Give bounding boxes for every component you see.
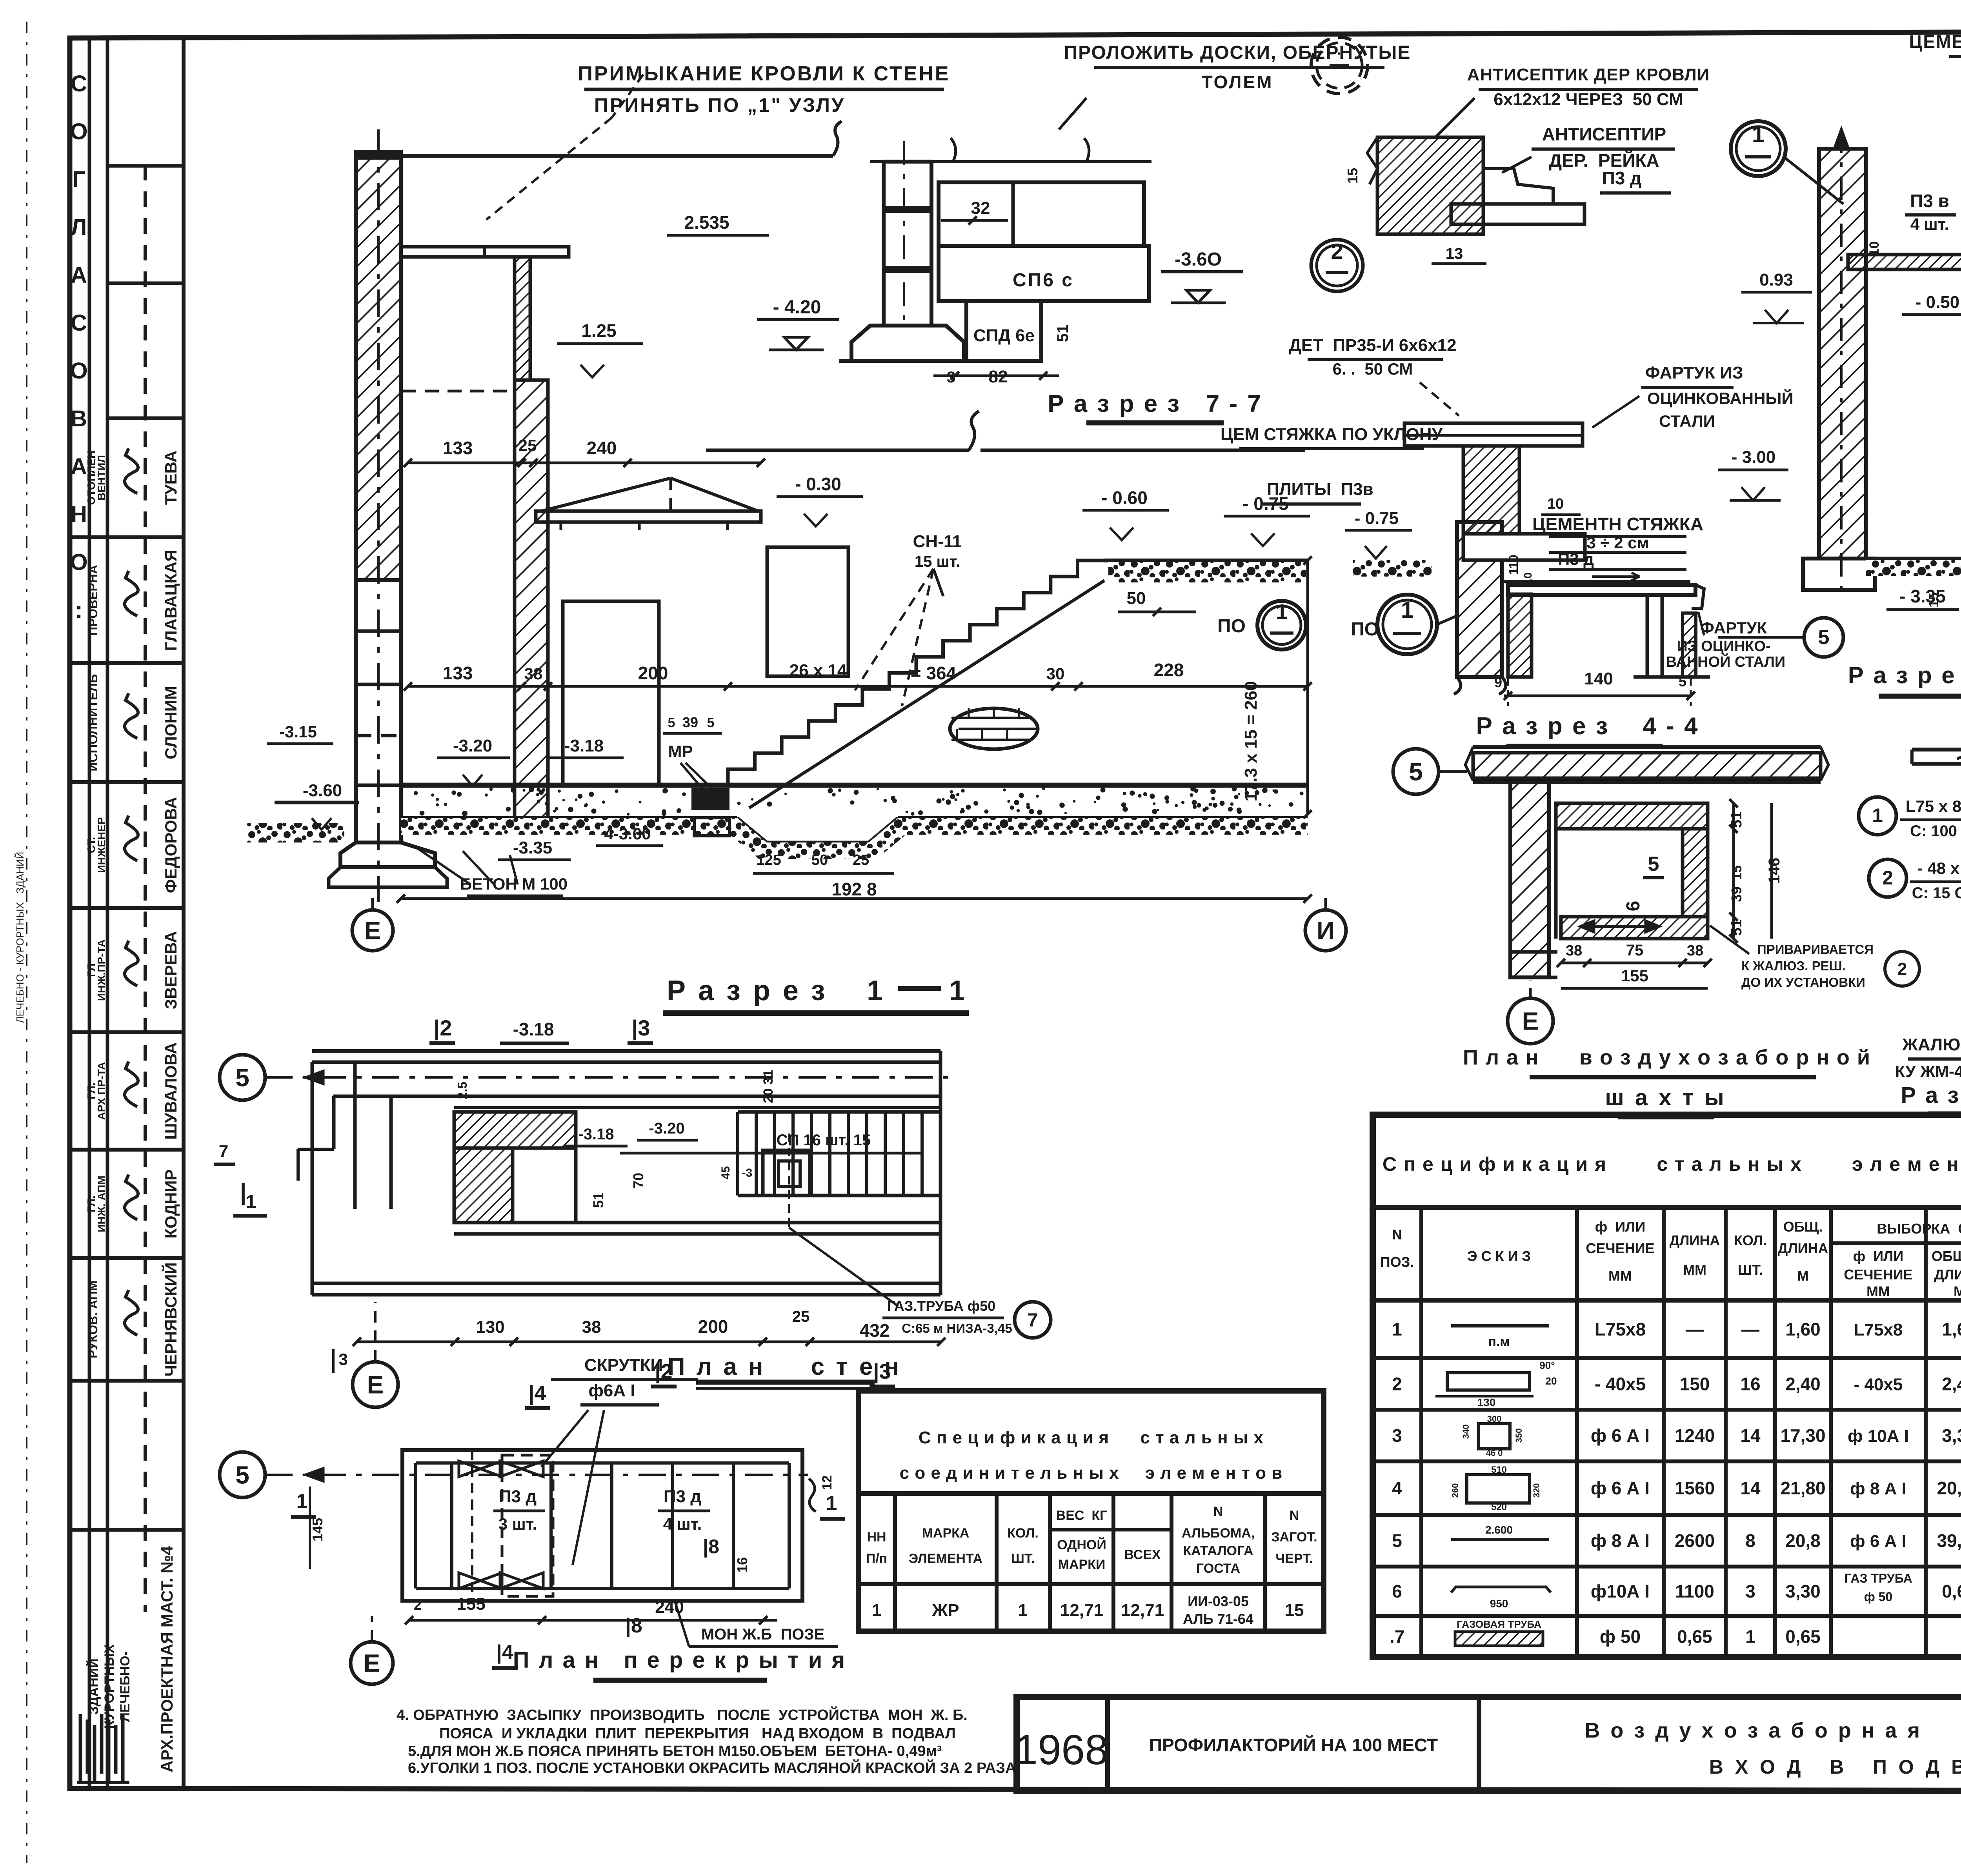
note roof-to-wall	[486, 62, 950, 220]
svg-text:ФЕДОРОВА: ФЕДОРОВА	[162, 797, 180, 893]
dashed box	[502, 1455, 553, 1596]
svg-text:432: 432	[860, 1320, 890, 1341]
svg-text:|8: |8	[703, 1536, 719, 1558]
svg-text:15: 15	[1285, 1601, 1304, 1620]
svg-text:СН-11: СН-11	[913, 532, 962, 551]
svg-text:140: 140	[1584, 669, 1613, 688]
wall centerline	[377, 129, 380, 902]
upper landing line	[1104, 559, 1308, 562]
secondary wall	[1508, 594, 1532, 677]
svg-text:Г: Г	[73, 167, 85, 192]
svg-text:-3.18: -3.18	[564, 736, 604, 755]
svg-text:С п е ц и ф и к а ц и я: С п е ц и ф и к а ц и я с т а л ь н ы х …	[1383, 1153, 1961, 1175]
svg-text:ГАЗ.ТРУБА ф50: ГАЗ.ТРУБА ф50	[887, 1298, 996, 1314]
svg-text:200: 200	[698, 1316, 728, 1337]
svg-text:2: 2	[1331, 239, 1343, 264]
svg-text:ЗДАНИЙ: ЗДАНИЙ	[86, 1658, 101, 1715]
svg-text:-3.6О: -3.6О	[1175, 249, 1222, 270]
svg-text:ЦЕМЕНТН СТЯЖКА: ЦЕМЕНТН СТЯЖКА	[1532, 514, 1703, 534]
svg-text:13: 13	[1446, 245, 1463, 262]
svg-text:ПО: ПО	[1351, 619, 1379, 640]
svg-text:5: 5	[1679, 673, 1686, 690]
svg-text:ШТ.: ШТ.	[1738, 1262, 1763, 1278]
svg-text:20 31: 20 31	[761, 1070, 776, 1103]
svg-text:НН: НН	[867, 1530, 886, 1545]
svg-text:17,30: 17,30	[1780, 1425, 1825, 1446]
svg-text:АЛЬ 71-64: АЛЬ 71-64	[1183, 1611, 1253, 1627]
svg-text:130: 130	[1477, 1396, 1496, 1408]
svg-text:15: 15	[1926, 593, 1941, 608]
ground hatch right	[1108, 562, 1308, 582]
svg-text:21,80: 21,80	[1780, 1478, 1825, 1498]
right vertical dim	[1306, 560, 1309, 814]
svg-text:6: 6	[1623, 901, 1644, 912]
svg-text::: :	[75, 597, 82, 623]
svg-text:-3: -3	[742, 1166, 753, 1179]
left ground level	[275, 801, 356, 804]
svg-text:L75х8: L75х8	[1854, 1320, 1903, 1339]
svg-text:.7: .7	[1390, 1627, 1404, 1647]
svg-text:N: N	[1290, 1508, 1299, 1523]
svg-text:ШТ.: ШТ.	[1011, 1551, 1035, 1566]
section 2-2 drawing	[1718, 31, 1961, 696]
svg-text:РУКОВ. АПМ: РУКОВ. АПМ	[86, 1281, 100, 1358]
svg-text:-3.60: -3.60	[303, 781, 342, 800]
svg-text:- 4.20: - 4.20	[773, 297, 821, 318]
plan of air intake shaft	[1393, 747, 1919, 1117]
plan of walls	[214, 1015, 1051, 1408]
svg-text:ФАРТУК ИЗ: ФАРТУК ИЗ	[1645, 363, 1743, 382]
svg-text:ПО: ПО	[1217, 616, 1246, 637]
svg-text:15: 15	[1344, 168, 1361, 184]
svg-text:L75 х 8: L75 х 8	[1906, 797, 1961, 815]
svg-text:К ЖАЛЮЗ. РЕШ.: К ЖАЛЮЗ. РЕШ.	[1741, 959, 1846, 973]
svg-text:ПОЯСА И УКЛАДКИ ПЛИТ ПЕРЕКР: ПОЯСА И УКЛАДКИ ПЛИТ ПЕРЕКРЫТИЯ НАД ВХОД…	[439, 1725, 956, 1742]
svg-text:51: 51	[1728, 812, 1745, 828]
svg-text:П/п: П/п	[866, 1551, 887, 1566]
svg-text:1: 1	[297, 1490, 308, 1513]
svg-text:46 0: 46 0	[1486, 1448, 1503, 1458]
svg-text:133: 133	[443, 438, 473, 458]
svg-text:МОН Ж.Б ПОЗЕ: МОН Ж.Б ПОЗЕ	[701, 1626, 824, 1643]
svg-text:10: 10	[1867, 241, 1882, 256]
bottom dims	[409, 1619, 777, 1622]
svg-text:КОЛ.: КОЛ.	[1734, 1232, 1767, 1248]
svg-text:1: 1	[1745, 1627, 1755, 1647]
svg-text:ВЕНТИЛ: ВЕНТИЛ	[95, 455, 107, 500]
roof line	[401, 154, 833, 158]
svg-text:с о е д и н и т е л ь н ы х: с о е д и н и т е л ь н ы х э л е м е н …	[900, 1463, 1283, 1483]
svg-text:ПОЗ.: ПОЗ.	[1380, 1254, 1414, 1270]
svg-text:ф 6 А I: ф 6 А I	[1591, 1425, 1650, 1446]
svg-text:25: 25	[792, 1308, 810, 1325]
footing	[1803, 559, 1875, 590]
svg-text:ф 50: ф 50	[1600, 1627, 1641, 1647]
svg-text:ВСЕХ: ВСЕХ	[1124, 1547, 1161, 1562]
svg-text:7: 7	[219, 1142, 228, 1161]
svg-text:3: 3	[1745, 1581, 1755, 1601]
svg-text:6.УГОЛКИ 1 ПОЗ. ПОСЛЕ УСТАНОВК: 6.УГОЛКИ 1 ПОЗ. ПОСЛЕ УСТАНОВКИ ОКРАСИТЬ…	[408, 1759, 1016, 1776]
callout 1	[1859, 797, 1896, 835]
gas pipe leader	[789, 1228, 898, 1306]
dim row upper	[408, 462, 761, 464]
svg-text:п.м: п.м	[1488, 1334, 1510, 1349]
slab dividers	[450, 1463, 453, 1589]
svg-text:320: 320	[1532, 1483, 1541, 1498]
svg-text:ОБЩ.: ОБЩ.	[1783, 1219, 1823, 1235]
svg-text:ТУЕВА: ТУЕВА	[162, 451, 180, 505]
bowtie marks	[500, 1461, 543, 1477]
svg-text:ДЛИНА: ДЛИНА	[1934, 1266, 1961, 1283]
svg-text:0.93: 0.93	[1759, 270, 1793, 289]
dims bottom	[1561, 962, 1708, 964]
svg-text:ф 8 А I: ф 8 А I	[1850, 1479, 1906, 1498]
window opening	[767, 547, 848, 676]
svg-text:ИСПОЛНИТЕЛЬ: ИСПОЛНИТЕЛЬ	[86, 674, 100, 771]
svg-text:-3.20: -3.20	[649, 1120, 684, 1137]
sump block MP	[691, 788, 729, 810]
svg-text:- 48 х 5: - 48 х 5	[1917, 859, 1961, 877]
svg-text:КАТАЛОГА: КАТАЛОГА	[1183, 1543, 1253, 1558]
svg-text:- 0.30: - 0.30	[795, 474, 841, 494]
svg-text:1: 1	[1276, 600, 1288, 624]
opening arrows	[1581, 925, 1659, 928]
svg-text:38: 38	[524, 664, 543, 683]
svg-text:ММ: ММ	[1683, 1262, 1706, 1278]
svg-text:КУ ЖМ-4 СМ. ПРОЕКТ „ОВ": КУ ЖМ-4 СМ. ПРОЕКТ „ОВ"	[1895, 1062, 1961, 1081]
wall footing left	[340, 842, 435, 867]
svg-text:ЖР: ЖР	[931, 1601, 959, 1620]
svg-text:АНТИСЕПТИР: АНТИСЕПТИР	[1542, 124, 1666, 144]
stamp signature rows	[85, 448, 180, 1377]
svg-text:ММ: ММ	[1866, 1283, 1890, 1299]
svg-text:ф6А I: ф6А I	[588, 1381, 635, 1400]
svg-text:1: 1	[872, 1601, 881, 1620]
section 1-1 drawing	[247, 121, 1346, 1013]
svg-text:38: 38	[1566, 943, 1582, 959]
shaft small square (gas pipe)	[763, 1150, 810, 1195]
svg-text:17.3 х 15 = 260: 17.3 х 15 = 260	[1241, 681, 1261, 801]
svg-text:133: 133	[443, 663, 473, 683]
svg-text:ЗВЕРЕВА: ЗВЕРЕВА	[162, 931, 180, 1009]
svg-text:Р а з р е з: Р а з р е з	[667, 975, 828, 1006]
svg-text:26 х 14: 26 х 14	[789, 661, 847, 680]
svg-text:0,65: 0,65	[1942, 1581, 1961, 1601]
shaft walls	[1556, 803, 1708, 829]
svg-text:М: М	[1954, 1283, 1961, 1299]
wall lower blocks	[356, 580, 401, 842]
svg-text:ПРИНЯТЬ ПО „1" УЗЛУ: ПРИНЯТЬ ПО „1" УЗЛУ	[594, 94, 845, 116]
svg-text:ДО ИХ УСТАНОВКИ: ДО ИХ УСТАНОВКИ	[1741, 975, 1865, 990]
svg-text:ДЛИНА: ДЛИНА	[1778, 1240, 1828, 1256]
top dim line	[870, 160, 1151, 163]
wall left (hatched)	[356, 152, 401, 580]
svg-text:2.535: 2.535	[684, 212, 729, 233]
wall ledge	[1463, 534, 1585, 560]
svg-text:3,30: 3,30	[1785, 1581, 1821, 1601]
svg-text:5: 5	[707, 715, 715, 730]
bottom band	[454, 1221, 940, 1225]
stamp approval text	[70, 71, 87, 623]
svg-text:ШУВАЛОВА: ШУВАЛОВА	[162, 1042, 180, 1139]
svg-text:5: 5	[1818, 626, 1830, 649]
footing trapezoid	[851, 326, 964, 361]
svg-text:ф 8 А I: ф 8 А I	[1591, 1530, 1650, 1551]
svg-text:155: 155	[457, 1594, 485, 1614]
svg-text:В о з д у х о з а б о р н а я: В о з д у х о з а б о р н а я ш а х т а …	[1584, 1719, 1961, 1742]
svg-text:1.25: 1.25	[581, 320, 617, 341]
svg-text:С: С	[71, 310, 87, 336]
svg-text:·: ·	[1337, 45, 1342, 62]
svg-text:2600: 2600	[1675, 1530, 1715, 1551]
svg-text:3: 3	[1392, 1425, 1402, 1446]
svg-text:СП6 с: СП6 с	[1013, 270, 1074, 291]
svg-text:3,30: 3,30	[1942, 1425, 1961, 1446]
svg-text:П3 д: П3 д	[1558, 550, 1594, 568]
svg-text:Э С К И З: Э С К И З	[1467, 1248, 1531, 1264]
svg-text:1100: 1100	[1675, 1581, 1714, 1601]
axis circles E and I	[352, 910, 393, 951]
node circle 2	[1311, 240, 1363, 291]
svg-text:1560: 1560	[1675, 1478, 1715, 1498]
svg-text:П3 в: П3 в	[1910, 191, 1949, 211]
svg-text:ф 6 А I: ф 6 А I	[1850, 1532, 1906, 1551]
svg-text:38: 38	[582, 1317, 601, 1337]
svg-text:39: 39	[682, 714, 698, 730]
outer rect	[402, 1450, 802, 1601]
svg-text:1968: 1968	[1014, 1726, 1108, 1773]
node circle 1	[1731, 121, 1786, 176]
section 4-4 drawing	[1345, 509, 1843, 746]
svg-text:-3.15: -3.15	[279, 722, 317, 741]
svg-text:300: 300	[1487, 1414, 1502, 1424]
svg-text:520: 520	[1491, 1502, 1507, 1512]
svg-text:20,80: 20,80	[1937, 1478, 1961, 1498]
svg-text:1,60: 1,60	[1785, 1319, 1821, 1339]
svg-text:90°: 90°	[1539, 1359, 1555, 1371]
bottom long dim	[401, 897, 1308, 900]
svg-text:МР: МР	[668, 742, 693, 761]
axis circles	[1393, 749, 1439, 794]
svg-text:7: 7	[1028, 1310, 1038, 1331]
svg-text:5: 5	[235, 1461, 249, 1489]
svg-text:ГАЗ ТРУБА: ГАЗ ТРУБА	[1844, 1571, 1912, 1585]
svg-text:1: 1	[1392, 1319, 1402, 1339]
svg-text:МАРКИ: МАРКИ	[1058, 1557, 1106, 1572]
svg-text:- 40х5: - 40х5	[1595, 1374, 1646, 1394]
svg-text:- 3.00: - 3.00	[1732, 448, 1776, 467]
note boards wrapped	[1059, 42, 1411, 129]
paper fold mark line	[26, 22, 27, 1863]
svg-text:ПРОВЕРНА: ПРОВЕРНА	[86, 565, 100, 636]
floor slab	[401, 783, 1308, 788]
svg-text:—: —	[1686, 1319, 1704, 1339]
block СПД6е	[966, 301, 1041, 361]
svg-text:1: 1	[1872, 804, 1883, 826]
svg-text:2,40: 2,40	[1942, 1374, 1961, 1394]
svg-text:ДЛИНА: ДЛИНА	[1670, 1232, 1720, 1248]
svg-text:0,65: 0,65	[1785, 1627, 1821, 1647]
svg-text:N: N	[1392, 1226, 1402, 1243]
svg-text:14: 14	[1740, 1425, 1761, 1446]
svg-text:L75х8: L75х8	[1595, 1319, 1646, 1339]
svg-text:-3.20: -3.20	[453, 736, 492, 755]
svg-text:4. ОБРАТНУЮ ЗАСЫПКУ ПРОИЗВОД: 4. ОБРАТНУЮ ЗАСЫПКУ ПРОИЗВОДИТЬ ПОСЛЕ УС…	[397, 1706, 968, 1723]
svg-text:ПЛИТЫ П3в: ПЛИТЫ П3в	[1267, 480, 1373, 499]
svg-text:1: 1	[1752, 122, 1765, 147]
svg-text:12,71: 12,71	[1121, 1601, 1164, 1620]
corner hatched walls	[454, 1112, 576, 1148]
svg-text:32: 32	[971, 198, 990, 218]
svg-text:340: 340	[1461, 1425, 1471, 1439]
svg-text:510: 510	[1491, 1465, 1507, 1475]
svg-text:СКРУТКИ: СКРУТКИ	[584, 1356, 663, 1375]
svg-text:П л а н с т е н: П л а н с т е н	[668, 1353, 901, 1380]
louver grille verticals	[738, 1110, 940, 1114]
svg-text:П3 д: П3 д	[1602, 168, 1642, 188]
outer wall band top	[312, 1049, 940, 1053]
svg-text:30: 30	[1046, 664, 1065, 683]
svg-text:ОБЩАЯ: ОБЩАЯ	[1932, 1248, 1961, 1264]
screed slope line	[706, 411, 1443, 504]
svg-text:2: 2	[1897, 959, 1907, 979]
svg-text:АЛЬБОМА,: АЛЬБОМА,	[1182, 1526, 1255, 1541]
svg-text:5: 5	[1648, 853, 1659, 875]
svg-text:2: 2	[1392, 1374, 1402, 1394]
svg-text:КОЛ.: КОЛ.	[1007, 1526, 1039, 1541]
svg-text:3 шт.: 3 шт.	[498, 1515, 537, 1533]
svg-text:4: 4	[1392, 1478, 1402, 1498]
svg-text:ЗАГОТ.: ЗАГОТ.	[1271, 1530, 1317, 1545]
svg-text:ф 50: ф 50	[1864, 1590, 1892, 1604]
axis 5	[220, 1452, 265, 1498]
svg-text:130: 130	[476, 1317, 504, 1337]
svg-text:СПД 6е: СПД 6е	[973, 326, 1035, 345]
svg-text:А: А	[71, 454, 87, 479]
svg-text:ИНЖ. АПМ: ИНЖ. АПМ	[95, 1175, 107, 1232]
svg-text:ф 6 А I: ф 6 А I	[1591, 1478, 1650, 1498]
svg-text:-3.18: -3.18	[513, 1019, 554, 1039]
svg-text:51: 51	[1054, 325, 1071, 342]
floor line	[1819, 557, 1961, 560]
svg-text:ЛЕЧЕБНО-: ЛЕЧЕБНО-	[118, 1651, 133, 1722]
svg-text:350: 350	[1514, 1428, 1524, 1443]
dims right	[1732, 803, 1735, 939]
svg-text:В: В	[71, 406, 87, 431]
svg-text:ш а х т ы: ш а х т ы	[1605, 1085, 1726, 1110]
svg-text:Е: Е	[364, 1649, 380, 1677]
notes 4-6	[397, 1706, 1016, 1776]
svg-text:2.600: 2.600	[1485, 1524, 1513, 1536]
svg-text:70: 70	[630, 1173, 646, 1188]
pit under stair	[737, 818, 898, 842]
svg-text:110: 110	[1506, 555, 1521, 575]
svg-text:С п е ц и ф и к а ц и я с: С п е ц и ф и к а ц и я с т а л ь н ы х	[919, 1428, 1264, 1447]
svg-text:= 364: = 364	[911, 663, 957, 683]
svg-text:2: 2	[414, 1597, 422, 1613]
svg-text:- 0.50: - 0.50	[1916, 293, 1960, 312]
svg-text:АРХ.ПРОЕКТНАЯ МАСТ. №4: АРХ.ПРОЕКТНАЯ МАСТ. №4	[158, 1546, 176, 1772]
svg-text:20,8: 20,8	[1785, 1530, 1821, 1551]
svg-text:Н: Н	[71, 502, 87, 527]
svg-text:ВЕС КГ: ВЕС КГ	[1056, 1508, 1108, 1523]
svg-text:ЦЕМЕНТНАЯ СТЯЖКА: ЦЕМЕНТНАЯ СТЯЖКА	[1909, 31, 1961, 52]
section 7-7 drawing	[757, 138, 1262, 423]
axis line 5	[220, 1055, 265, 1100]
svg-text:10: 10	[1547, 496, 1564, 512]
svg-text:|4: |4	[528, 1381, 546, 1405]
svg-text:14: 14	[1740, 1478, 1761, 1498]
svg-text:ф ИЛИ: ф ИЛИ	[1595, 1219, 1646, 1235]
svg-text:С: С	[71, 71, 87, 96]
svg-text:О: О	[70, 358, 87, 384]
svg-text:С: 100: С: 100	[1910, 822, 1957, 840]
left wall L	[1510, 782, 1549, 977]
svg-text:1: 1	[949, 975, 965, 1006]
svg-text:2: 2	[1882, 867, 1893, 889]
svg-text:25: 25	[518, 436, 537, 455]
svg-text:ВЫБОРКА СТАЛИ: ВЫБОРКА СТАЛИ	[1877, 1221, 1961, 1237]
svg-text:10: 10	[1522, 572, 1534, 584]
svg-text:12: 12	[820, 1475, 835, 1490]
svg-text:СТАЛИ: СТАЛИ	[1659, 412, 1715, 430]
svg-text:ДЕТ ПР35-И 6х6х12: ДЕТ ПР35-И 6х6х12	[1289, 336, 1456, 355]
svg-text:6х12х12 ЧЕРЕЗ 50 СМ: 6х12х12 ЧЕРЕЗ 50 СМ	[1493, 90, 1683, 109]
svg-text:В Х О Д В П О Д В А Л: В Х О Д В П О Д В А Л	[1709, 1756, 1961, 1778]
svg-text:О: О	[70, 119, 87, 144]
svg-text:Р а з р е з 7 - 7: Р а з р е з 7 - 7	[1048, 390, 1262, 417]
svg-text:75: 75	[1626, 942, 1644, 959]
svg-text:С:65 м НИЗА-3,45: С:65 м НИЗА-3,45	[902, 1321, 1012, 1336]
axis E bottom	[351, 1642, 393, 1684]
svg-text:|2: |2	[434, 1015, 452, 1041]
svg-text:ЛЕЧЕБНО - КУРОРТНЫХ ЗДАНИЙ: ЛЕЧЕБНО - КУРОРТНЫХ ЗДАНИЙ	[14, 852, 26, 1023]
svg-text:150: 150	[1680, 1374, 1710, 1394]
svg-text:И: И	[1317, 916, 1335, 944]
svg-text:БЕТОН М 100: БЕТОН М 100	[460, 875, 568, 893]
svg-text:Е: Е	[367, 1370, 384, 1399]
bottom dim line	[357, 1341, 941, 1343]
ceiling slab	[1912, 748, 1961, 751]
svg-text:4 шт.: 4 шт.	[1910, 215, 1949, 233]
table sketches	[1451, 1324, 1549, 1328]
svg-text:—: —	[1741, 1319, 1759, 1339]
svg-text:1: 1	[867, 975, 882, 1006]
svg-text:228: 228	[1154, 660, 1184, 680]
axis E	[353, 1362, 398, 1407]
svg-text:5: 5	[235, 1063, 249, 1092]
table: steel connection elements spec	[859, 1391, 1324, 1631]
wall hatched	[1457, 522, 1502, 677]
svg-text:125: 125	[756, 852, 781, 868]
slab П3в top	[401, 247, 569, 257]
svg-text:П3 д: П3 д	[499, 1487, 537, 1506]
masonry patch	[950, 708, 1038, 749]
svg-text:39: 39	[1728, 886, 1745, 902]
svg-text:А: А	[71, 262, 87, 288]
table: steel elements specification	[1373, 1115, 1961, 1657]
svg-text:ф ИЛИ: ф ИЛИ	[1853, 1248, 1904, 1264]
svg-text:Е: Е	[1522, 1007, 1539, 1035]
door opening	[563, 601, 659, 785]
svg-text:1: 1	[246, 1192, 256, 1212]
svg-text:- 40х5: - 40х5	[1854, 1375, 1903, 1394]
plan of floor slabs	[220, 1356, 845, 1684]
svg-text:5: 5	[1392, 1530, 1402, 1551]
svg-text:СЛОНИМ: СЛОНИМ	[162, 686, 180, 759]
svg-text:1: 1	[1401, 597, 1413, 623]
svg-text:СП 16 шт. 15: СП 16 шт. 15	[777, 1132, 871, 1149]
